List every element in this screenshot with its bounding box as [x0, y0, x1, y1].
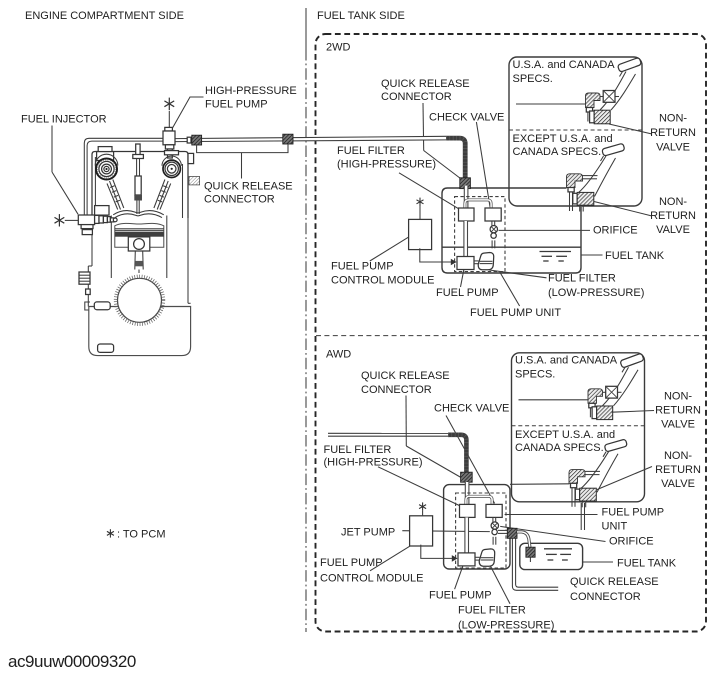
- svg-text:QUICK RELEASE: QUICK RELEASE: [361, 370, 450, 382]
- svg-text:SPECS.: SPECS.: [513, 73, 553, 85]
- svg-text:RETURN: RETURN: [650, 127, 696, 139]
- svg-text:FUEL PUMP: FUEL PUMP: [205, 98, 268, 110]
- svg-text:EXCEPT U.S.A. and: EXCEPT U.S.A. and: [513, 133, 613, 145]
- svg-text:JET PUMP: JET PUMP: [341, 527, 395, 539]
- svg-text:NON-: NON-: [659, 113, 687, 125]
- svg-text:RETURN: RETURN: [650, 210, 696, 222]
- svg-text:HIGH-PRESSURE: HIGH-PRESSURE: [205, 85, 297, 97]
- svg-text:FUEL TANK: FUEL TANK: [617, 557, 677, 569]
- svg-text:VALVE: VALVE: [656, 224, 690, 236]
- svg-text:CHECK VALVE: CHECK VALVE: [434, 403, 509, 415]
- svg-text:ENGINE COMPARTMENT SIDE: ENGINE COMPARTMENT SIDE: [25, 10, 184, 22]
- svg-text:FUEL PUMP UNIT: FUEL PUMP UNIT: [470, 307, 561, 319]
- svg-text:VALVE: VALVE: [661, 478, 695, 490]
- svg-text:(HIGH-PRESSURE): (HIGH-PRESSURE): [324, 456, 423, 468]
- svg-text:2WD: 2WD: [326, 42, 351, 54]
- svg-text:ac9uuw00009320: ac9uuw00009320: [8, 652, 136, 671]
- svg-text:FUEL TANK SIDE: FUEL TANK SIDE: [317, 10, 405, 22]
- svg-text:FUEL FILTER: FUEL FILTER: [337, 145, 405, 157]
- svg-text:ORIFICE: ORIFICE: [593, 225, 638, 237]
- svg-text:FUEL TANK: FUEL TANK: [605, 250, 665, 262]
- svg-text:RETURN: RETURN: [655, 464, 701, 476]
- svg-text:NON-: NON-: [664, 450, 692, 462]
- svg-text:FUEL PUMP: FUEL PUMP: [320, 557, 383, 569]
- svg-text:AWD: AWD: [326, 349, 351, 361]
- svg-text:NON-: NON-: [664, 391, 692, 403]
- svg-text:VALVE: VALVE: [661, 419, 695, 431]
- svg-text:FUEL FILTER: FUEL FILTER: [458, 605, 526, 617]
- svg-text:FUEL PUMP: FUEL PUMP: [429, 590, 492, 602]
- svg-text:(HIGH-PRESSURE): (HIGH-PRESSURE): [337, 158, 436, 170]
- svg-text:CONNECTOR: CONNECTOR: [204, 194, 275, 206]
- svg-text:FUEL PUMP: FUEL PUMP: [331, 260, 394, 272]
- svg-text:CANADA SPECS.: CANADA SPECS.: [513, 146, 602, 158]
- svg-text:CONTROL MODULE: CONTROL MODULE: [320, 573, 424, 585]
- svg-text:ORIFICE: ORIFICE: [609, 536, 654, 548]
- svg-text:FUEL FILTER: FUEL FILTER: [324, 444, 392, 456]
- svg-text:(LOW-PRESSURE): (LOW-PRESSURE): [458, 619, 554, 631]
- svg-text:UNIT: UNIT: [602, 520, 628, 532]
- svg-text:QUICK RELEASE: QUICK RELEASE: [204, 181, 293, 193]
- svg-text:CONNECTOR: CONNECTOR: [381, 91, 452, 103]
- svg-text:FUEL FILTER: FUEL FILTER: [548, 273, 616, 285]
- svg-text:(LOW-PRESSURE): (LOW-PRESSURE): [548, 287, 644, 299]
- svg-text:CONNECTOR: CONNECTOR: [570, 591, 641, 603]
- svg-text:CONTROL MODULE: CONTROL MODULE: [331, 275, 435, 287]
- svg-text:: TO PCM: : TO PCM: [117, 529, 166, 541]
- svg-text:CHECK VALVE: CHECK VALVE: [429, 112, 504, 124]
- svg-text:FUEL PUMP: FUEL PUMP: [602, 506, 665, 518]
- svg-text:NON-: NON-: [659, 196, 687, 208]
- svg-text:U.S.A. and CANADA: U.S.A. and CANADA: [513, 59, 616, 71]
- svg-text:FUEL INJECTOR: FUEL INJECTOR: [21, 113, 107, 125]
- svg-text:QUICK RELEASE: QUICK RELEASE: [381, 78, 470, 90]
- svg-text:FUEL PUMP: FUEL PUMP: [436, 287, 499, 299]
- svg-text:RETURN: RETURN: [655, 405, 701, 417]
- svg-text:VALVE: VALVE: [656, 142, 690, 154]
- svg-text:CONNECTOR: CONNECTOR: [361, 384, 432, 396]
- svg-text:QUICK RELEASE: QUICK RELEASE: [570, 576, 659, 588]
